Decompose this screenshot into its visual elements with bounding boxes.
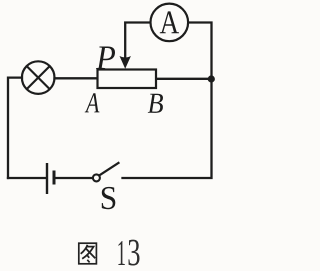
label A (rheostat left terminal) <box>85 93 100 112</box>
ammeter label A <box>160 11 179 33</box>
wire: bottom rail left segment to battery <box>8 177 46 179</box>
switch S lever arm <box>99 162 119 175</box>
冬 stroke: right-falling <box>86 248 95 258</box>
caption glyph 图 (hand-drawn, box enclosure) <box>79 243 97 264</box>
wire: ammeter left to rheostat wiper descent <box>125 23 150 58</box>
rheostat body (slide rheostat rectangle) <box>98 70 157 89</box>
wire: right rail top segment and top wire to ammeter right <box>188 23 211 80</box>
wire: left rail from lamp level down to bottom rail <box>8 78 22 178</box>
冬 stroke: fold <box>82 247 93 259</box>
wire: rheostat right end B to node <box>156 78 212 80</box>
rheostat wiper arrowhead P <box>120 56 131 69</box>
label S (switch) <box>102 187 116 209</box>
ammeter A (circle) <box>151 4 189 42</box>
wire: switch fixed contact to bottom right corner <box>123 79 212 178</box>
battery cell: long plate (+) <box>46 163 48 194</box>
node junction dot <box>208 75 215 82</box>
caption text 13 <box>118 241 124 265</box>
wire: lamp right to rheostat left end A <box>55 77 98 79</box>
switch S pivot circle <box>93 174 100 181</box>
wire: battery to switch pivot <box>55 177 93 179</box>
label B (rheostat right terminal) <box>148 94 163 113</box>
冬 stroke: left-falling <box>81 245 88 254</box>
battery cell: short plate (-) <box>53 171 56 185</box>
label P (wiper) <box>96 47 115 70</box>
lamp L (circle with X) <box>22 61 55 94</box>
冬 dots <box>87 255 89 257</box>
